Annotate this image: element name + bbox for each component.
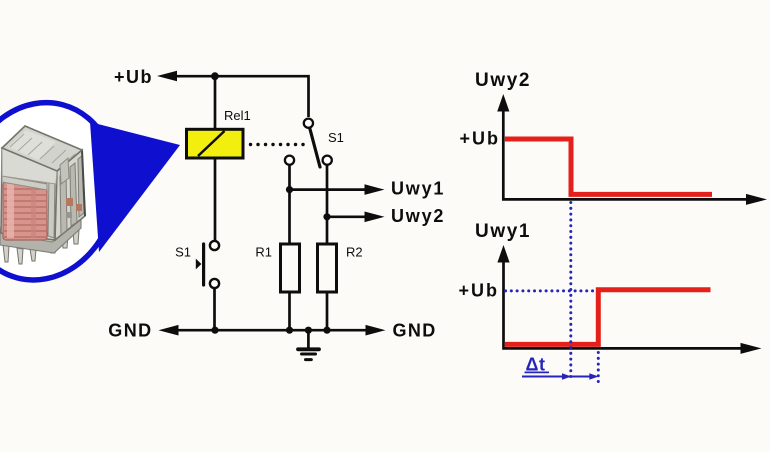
svg-text:Rel1: Rel1 [224,108,251,123]
svg-text:Uwy2: Uwy2 [475,70,531,91]
svg-text:S1: S1 [328,130,344,145]
svg-text:+Ub: +Ub [458,281,499,301]
svg-text:R2: R2 [346,245,363,260]
svg-text:GND: GND [108,321,152,341]
svg-text:Uwy2: Uwy2 [391,206,445,226]
svg-text:S1: S1 [175,245,191,260]
svg-text:Uwy1: Uwy1 [391,179,445,199]
svg-text:+Ub: +Ub [114,67,153,87]
svg-text:Uwy1: Uwy1 [475,221,531,242]
svg-text:GND: GND [393,321,437,341]
svg-text:Δt: Δt [526,355,546,375]
svg-text:+Ub: +Ub [459,129,500,149]
svg-text:R1: R1 [255,245,272,260]
